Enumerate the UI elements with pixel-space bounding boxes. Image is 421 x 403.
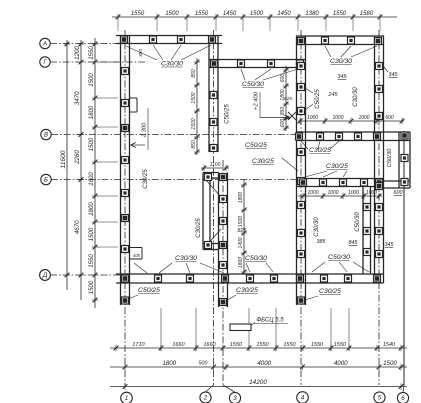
label 245 — [327, 92, 338, 98]
svg-text:380: 380 — [138, 49, 144, 57]
svg-text:385: 385 — [317, 239, 327, 245]
svg-text:С30/30: С30/30 — [175, 255, 197, 262]
svg-text:1710: 1710 — [132, 342, 145, 348]
label 345 top-right — [337, 74, 347, 80]
svg-text:С30/25: С30/25 — [309, 147, 331, 154]
svg-text:1: 1 — [125, 395, 129, 402]
wall shaft left — [203, 173, 210, 250]
wall shaft bottom — [203, 244, 219, 250]
arrow mark at axis-4 wall — [288, 112, 296, 120]
svg-text:1800: 1800 — [238, 192, 244, 203]
mini chain shaft width — [201, 162, 229, 171]
label С30/25 vertical left wall — [143, 169, 149, 189]
axis bubble 3 — [229, 392, 240, 403]
wall axis В right — [296, 132, 410, 141]
left wall jog — [130, 248, 148, 274]
piles on bottom wall — [122, 275, 381, 282]
axis bubble Б — [41, 174, 51, 184]
label С30/30 top-right room — [325, 46, 377, 65]
svg-text:1550: 1550 — [89, 46, 95, 60]
axis bubble 1 — [121, 392, 133, 403]
svg-text:С50/30: С50/30 — [387, 148, 393, 167]
svg-text:1550: 1550 — [89, 254, 95, 268]
mini chain center lower — [238, 180, 247, 274]
axis line И horizontal — [50, 274, 121, 276]
label С30/25 below В wall — [301, 141, 339, 154]
svg-text:1000: 1000 — [307, 190, 318, 196]
svg-text:С30/25: С30/25 — [196, 218, 202, 238]
axis bubble В — [41, 129, 51, 139]
piles on inner-right wall — [364, 204, 371, 256]
axis line А horizontal — [50, 43, 121, 45]
dimension chain left mid — [74, 40, 84, 300]
svg-text:600: 600 — [394, 190, 403, 196]
axis bubble Д — [40, 270, 51, 281]
label С50/25 stub1 — [128, 287, 160, 299]
axis line 1 vertical — [124, 30, 126, 385]
svg-text:С30/25: С30/25 — [143, 169, 149, 189]
svg-text:4670: 4670 — [74, 220, 81, 234]
wall recessed (axis Г) — [209, 60, 305, 68]
svg-text:1500: 1500 — [250, 11, 264, 17]
svg-text:В: В — [44, 133, 48, 139]
shaft diagonal braces — [206, 180, 221, 246]
svg-text:+2.400: +2.400 — [254, 91, 260, 110]
wall shaft top — [203, 173, 219, 179]
svg-text:С30/30: С30/30 — [314, 217, 320, 237]
svg-text:1500: 1500 — [191, 92, 197, 103]
piles on right-mid wall — [376, 183, 383, 258]
wall left (axis 1) — [121, 36, 130, 284]
svg-text:1550: 1550 — [131, 11, 145, 17]
svg-text:1550: 1550 — [333, 11, 347, 17]
svg-text:850: 850 — [191, 69, 197, 78]
svg-text:1500: 1500 — [191, 118, 197, 129]
piles on top-right wall — [322, 37, 382, 45]
piles on recessed wall — [211, 60, 304, 67]
svg-text:С30/30: С30/30 — [161, 61, 183, 68]
svg-text:3: 3 — [233, 395, 237, 402]
label С30/30 vertical top-right — [353, 87, 359, 107]
piles on axis-4 wall lower — [298, 149, 305, 258]
wall axis-2 upper — [209, 36, 218, 153]
wall stub axis 3 — [219, 283, 228, 307]
leader to axis-4 pile — [282, 158, 298, 171]
svg-text:1500: 1500 — [89, 280, 95, 294]
piles on left wall — [122, 68, 129, 253]
axis line 2 vertical — [206, 30, 214, 392]
svg-text:2.300: 2.300 — [142, 122, 148, 138]
left wall upper jog — [130, 98, 138, 112]
label С50/30 vertical far-right — [387, 148, 393, 167]
svg-text:1500: 1500 — [89, 227, 95, 241]
svg-text:850: 850 — [280, 107, 286, 116]
svg-text:С50/25: С50/25 — [138, 287, 160, 294]
dimension chain top — [112, 11, 397, 20]
svg-text:С50/30: С50/30 — [245, 255, 267, 262]
svg-text:345: 345 — [385, 242, 395, 248]
extension lines left — [97, 62, 118, 247]
svg-text:С50/25: С50/25 — [315, 89, 321, 109]
svg-text:1660: 1660 — [203, 342, 216, 348]
svg-text:1450: 1450 — [223, 11, 237, 17]
label С30/30 bottom-left — [159, 255, 224, 273]
axis bubble 6 — [397, 392, 408, 403]
svg-text:825: 825 — [284, 96, 292, 102]
extension lines bottom — [161, 308, 349, 351]
svg-text:1580: 1580 — [360, 11, 374, 17]
svg-text:1550: 1550 — [334, 342, 347, 348]
svg-text:825: 825 — [238, 228, 248, 234]
svg-text:1550: 1550 — [311, 342, 324, 348]
mini chain near axis 2 — [191, 58, 200, 155]
svg-text:1000: 1000 — [332, 115, 343, 121]
label С30/25 vertical shaft — [196, 218, 202, 238]
extension lines top — [118, 20, 380, 31]
mini chain near axis 4 upper — [280, 66, 289, 131]
piles on axis-4 wall upper — [298, 38, 305, 115]
svg-text:1800: 1800 — [89, 202, 95, 216]
svg-text:4: 4 — [301, 395, 305, 402]
svg-text:1550: 1550 — [283, 342, 296, 348]
axis bubble А — [40, 38, 50, 48]
dimension chain bottom total — [110, 379, 407, 390]
wall shaft right (axis 3) — [219, 173, 228, 284]
svg-text:С50/25: С50/25 — [225, 104, 231, 124]
svg-text:1000: 1000 — [348, 190, 359, 196]
level mark 2.300 left — [131, 108, 149, 150]
axis bubble 4 — [297, 392, 309, 403]
svg-text:2: 2 — [203, 395, 208, 402]
svg-text:1000: 1000 — [366, 190, 377, 196]
svg-text:1800: 1800 — [162, 360, 176, 367]
svg-text:1400: 1400 — [238, 237, 244, 248]
label 825 center-upper — [284, 96, 292, 102]
piles on stubs — [122, 297, 305, 306]
piles on far-right wall — [401, 132, 408, 186]
wall top-left (axis А) — [116, 36, 222, 44]
svg-text:1450: 1450 — [277, 11, 291, 17]
svg-text:5: 5 — [378, 395, 382, 402]
svg-text:С30/25: С30/25 — [236, 287, 258, 294]
svg-text:1000: 1000 — [327, 190, 338, 196]
svg-text:С30/25: С30/25 — [319, 288, 341, 295]
dimension chain bottom second — [110, 360, 407, 370]
svg-text:С50/30: С50/30 — [355, 212, 361, 232]
label 345 right edge — [383, 66, 399, 78]
wall axis-4 vertical — [297, 36, 306, 283]
svg-text:С30/25: С30/25 — [326, 163, 348, 170]
svg-text:600: 600 — [280, 74, 286, 83]
svg-text:1000: 1000 — [358, 115, 369, 121]
svg-text:1500: 1500 — [383, 360, 397, 367]
label С50/25 center — [245, 142, 267, 149]
label С30/25 center — [252, 158, 274, 165]
svg-text:1550: 1550 — [230, 342, 243, 348]
dimension chain bottom first — [110, 342, 407, 351]
svg-text:С30/30: С30/30 — [330, 58, 352, 65]
label 345 far-right — [385, 242, 395, 248]
svg-text:1200: 1200 — [74, 46, 81, 60]
svg-text:1500: 1500 — [165, 11, 179, 17]
svg-text:Б: Б — [44, 178, 48, 184]
piles on axis-Б wall — [300, 179, 383, 186]
piles on right upper wall — [376, 63, 383, 120]
svg-text:1800: 1800 — [89, 105, 95, 119]
wall right (axis 5) — [375, 36, 384, 283]
svg-text:С50/30: С50/30 — [242, 81, 264, 88]
axis line 5 vertical — [378, 30, 380, 385]
svg-text:1660: 1660 — [172, 342, 185, 348]
label С50/30 recess — [241, 69, 298, 88]
svg-text:А: А — [42, 42, 47, 48]
dimension chain left total — [60, 40, 70, 290]
svg-text:1550: 1550 — [256, 342, 269, 348]
wall far-right (axis 6) — [399, 132, 410, 188]
axis line Г horizontal — [50, 61, 148, 63]
wall stub axis 4 — [297, 283, 306, 305]
axis line 4 vertical — [300, 30, 302, 385]
label 600 far-right — [394, 190, 403, 196]
svg-text:Д: Д — [42, 272, 48, 279]
piles on shaft right wall — [220, 174, 227, 269]
piles on axis-В wall — [296, 133, 381, 140]
axis line 3 vertical — [223, 160, 235, 392]
dimension chain left fine — [89, 38, 98, 308]
wall far-right bottom — [375, 181, 410, 188]
svg-text:1500: 1500 — [89, 73, 95, 87]
svg-text:6: 6 — [401, 395, 405, 402]
svg-text:1000: 1000 — [307, 115, 318, 121]
wall stub axis 1 — [121, 283, 130, 305]
label С50/30 vertical lower-right — [355, 212, 361, 232]
label 380 rotated — [138, 49, 144, 57]
svg-text:1550: 1550 — [195, 11, 209, 17]
svg-text:1500: 1500 — [238, 216, 244, 227]
svg-text:1380: 1380 — [305, 11, 319, 17]
svg-text:1600: 1600 — [89, 172, 95, 186]
svg-text:С30/25: С30/25 — [252, 158, 274, 165]
svg-text:ФБСЦ 5.5: ФБСЦ 5.5 — [256, 318, 284, 324]
piles on axis-2 wall — [210, 92, 217, 152]
svg-text:405: 405 — [133, 253, 141, 258]
svg-text:11600: 11600 — [60, 150, 67, 168]
label С30/25 top of lower-right room — [305, 163, 348, 177]
label 825 center — [238, 228, 248, 234]
svg-text:2260: 2260 — [74, 150, 81, 165]
label С30/25 stub4 — [305, 288, 341, 300]
label С50/25 vertical top-right — [305, 88, 321, 110]
svg-text:4000: 4000 — [334, 360, 348, 367]
axis line В horizontal — [51, 134, 296, 136]
svg-text:245: 245 — [327, 92, 338, 98]
svg-text:500: 500 — [199, 361, 208, 367]
axis line 6 vertical — [403, 131, 404, 392]
piles on top-left wall — [121, 36, 216, 43]
svg-text:1100: 1100 — [210, 162, 221, 168]
svg-text:345: 345 — [388, 72, 398, 78]
label С50/25 vertical axis2 — [225, 104, 231, 124]
svg-text:845: 845 — [349, 240, 359, 246]
label С30/30 vertical lower-right — [314, 217, 320, 237]
axis bubble 5 — [374, 392, 385, 403]
svg-text:3470: 3470 — [74, 91, 81, 105]
axis line Б horizontal — [51, 179, 299, 181]
label С50/30 bottom-right — [312, 254, 369, 272]
mini chain top-right room — [298, 115, 405, 124]
svg-text:1540: 1540 — [383, 342, 396, 348]
label С30/30 top-left room — [126, 45, 211, 68]
wall axis Б right — [297, 179, 384, 187]
block note ФБСЦ 5.5 — [230, 318, 288, 331]
label 385 — [317, 239, 327, 245]
svg-text:1800: 1800 — [238, 257, 244, 268]
wall bottom (axis И) — [116, 274, 384, 283]
mini chain lower-right room — [298, 190, 382, 199]
axis bubble Г — [40, 57, 50, 67]
svg-text:4000: 4000 — [257, 360, 271, 367]
wall top-right (axis А right) — [296, 36, 384, 45]
svg-text:14200: 14200 — [249, 379, 267, 386]
svg-text:600: 600 — [385, 115, 394, 121]
label 845 inner — [349, 240, 359, 246]
piles on shaft left wall — [205, 174, 212, 249]
svg-text:850: 850 — [191, 140, 197, 149]
label С50/30 bottom-center — [245, 255, 273, 272]
svg-text:1500: 1500 — [89, 137, 95, 151]
wall inner right — [363, 187, 371, 275]
svg-text:С50/30: С50/30 — [328, 254, 350, 261]
svg-text:С30/30: С30/30 — [353, 87, 359, 107]
svg-text:345: 345 — [337, 74, 347, 80]
label С30/25 stub3 — [226, 287, 258, 301]
level mark 2.400 center — [254, 91, 291, 120]
svg-text:С50/25: С50/25 — [245, 142, 267, 149]
axis bubble 2 — [200, 392, 211, 403]
